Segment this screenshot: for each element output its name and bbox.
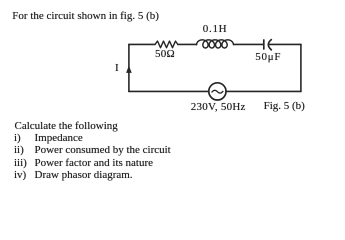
item ii Power consumed — [14, 145, 24, 156]
wire left vertical — [128, 44, 130, 91]
wire resistor to inductor — [178, 43, 197, 45]
wire top-left horizontal (corner to resistor) — [129, 43, 155, 45]
wire right vertical — [300, 44, 302, 91]
label 0.1H — [203, 24, 228, 35]
wire inductor to capacitor — [234, 43, 263, 45]
wire source to bottom-left corner — [129, 90, 209, 92]
question heading — [15, 121, 118, 132]
wire bottom-right (corner to source) — [226, 90, 301, 92]
title text — [12, 11, 159, 22]
capacitor 50uF left plate — [263, 40, 265, 49]
item i Impedance — [14, 133, 21, 144]
label 50ohm — [155, 49, 175, 60]
item iii Power factor — [14, 158, 27, 169]
AC source circle — [209, 83, 226, 100]
inductor 0.1H loops — [197, 40, 234, 48]
current arrow I (upward) — [126, 66, 132, 73]
capacitor 50uF right curved plate — [268, 40, 271, 50]
label I current — [115, 63, 119, 74]
label Fig. 5 (b) — [264, 101, 305, 112]
wire capacitor to top-right corner — [269, 43, 301, 45]
resistor 50ohm zigzag — [155, 41, 178, 48]
AC source sine wave — [212, 90, 223, 93]
label 50uF — [255, 52, 281, 63]
label 230V 50Hz — [191, 102, 246, 113]
item iv Draw phasor diagram — [14, 170, 26, 181]
